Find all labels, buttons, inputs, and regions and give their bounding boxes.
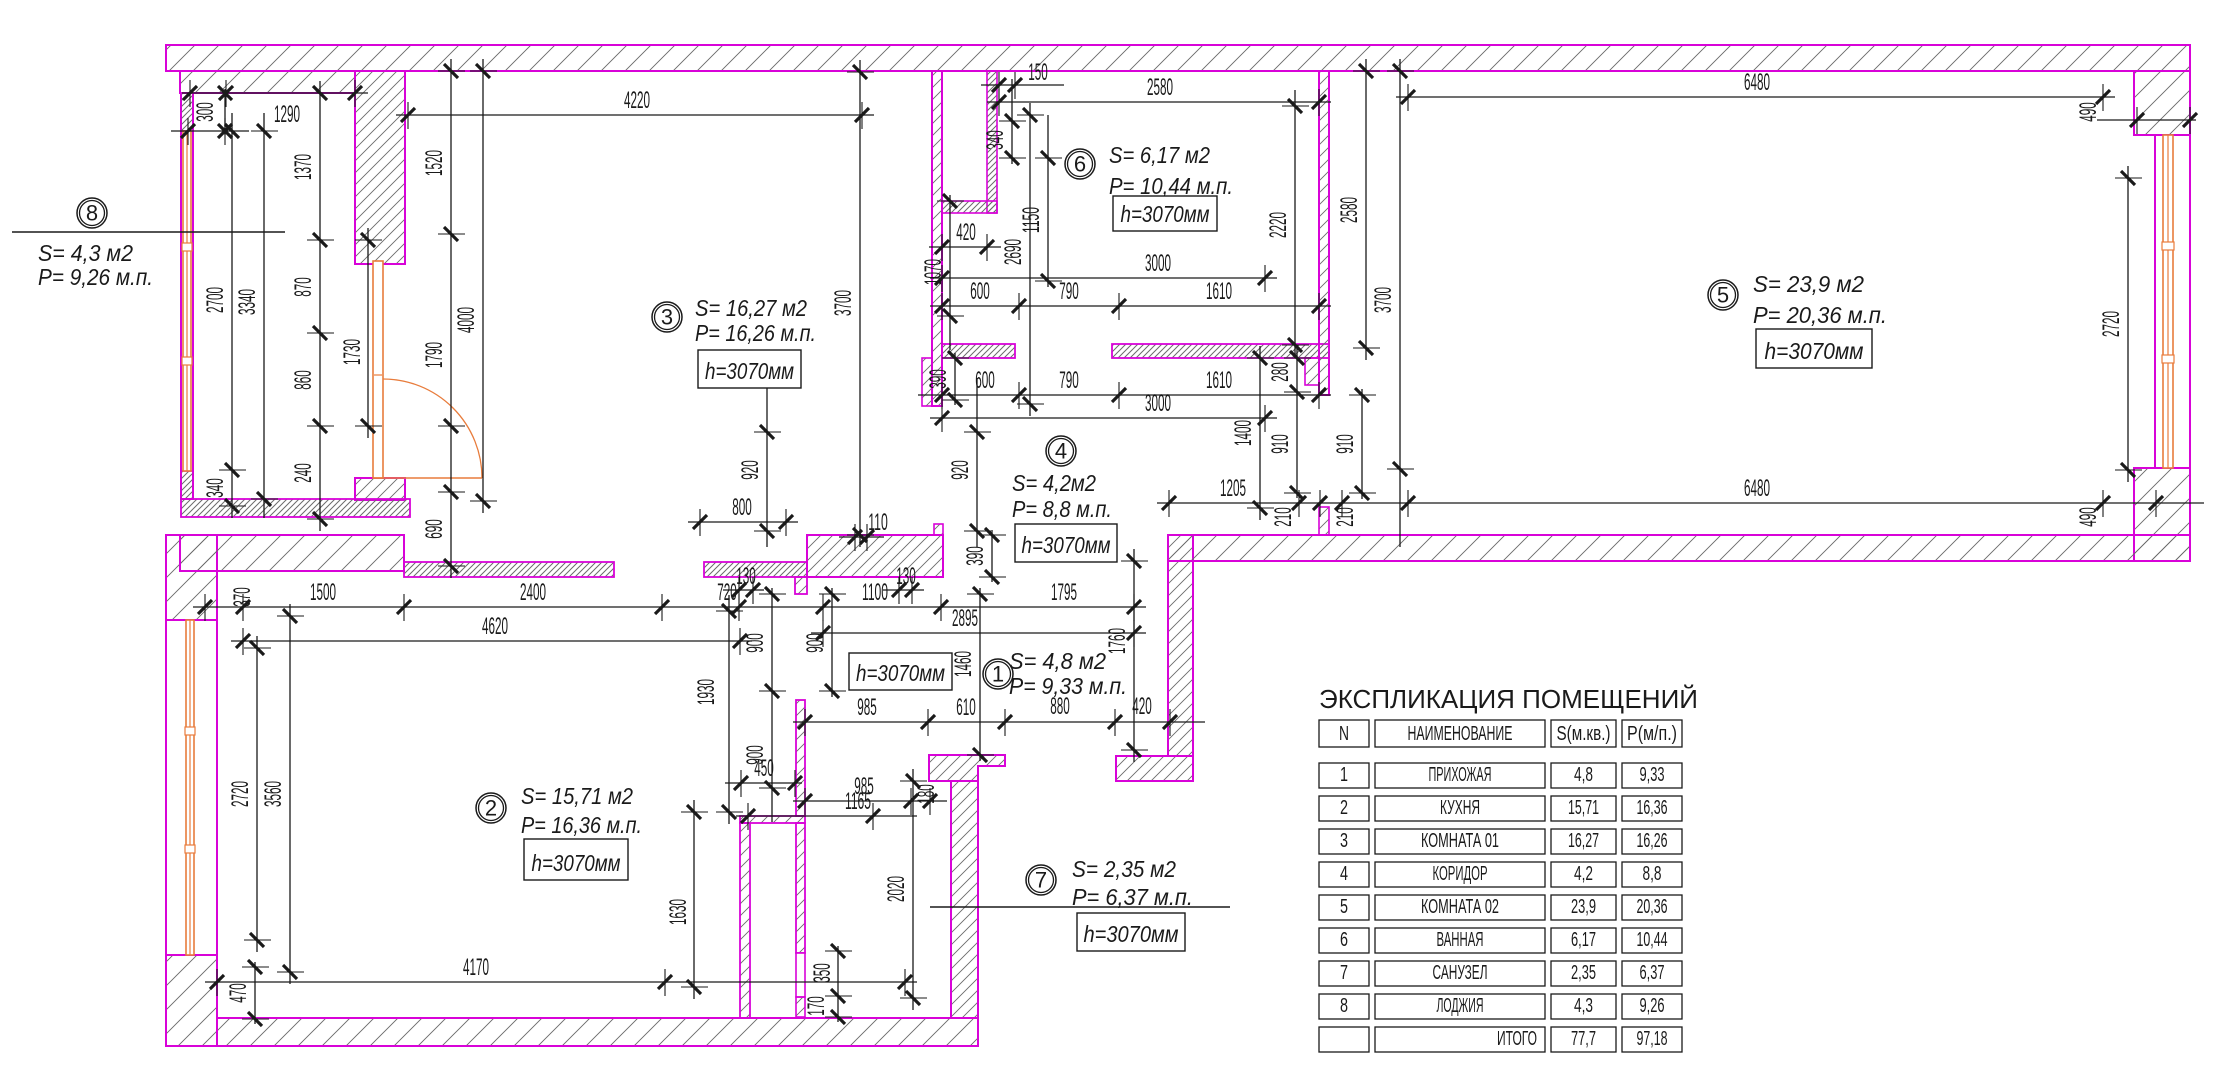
svg-text:P= 16,36 м.п.: P= 16,36 м.п. xyxy=(521,812,642,838)
svg-text:8: 8 xyxy=(1340,995,1348,1017)
svg-text:КОРИДОР: КОРИДОР xyxy=(1433,863,1488,885)
svg-text:6,17: 6,17 xyxy=(1571,929,1596,951)
svg-text:20,36: 20,36 xyxy=(1637,896,1668,918)
svg-text:985: 985 xyxy=(857,694,877,721)
svg-text:S= 4,8 м2: S= 4,8 м2 xyxy=(1009,648,1106,674)
svg-text:490: 490 xyxy=(2075,507,2102,527)
svg-text:S= 4,3 м2: S= 4,3 м2 xyxy=(38,240,133,266)
svg-text:23,9: 23,9 xyxy=(1571,896,1596,918)
svg-text:1460: 1460 xyxy=(950,651,977,677)
svg-text:6: 6 xyxy=(1074,152,1086,177)
svg-text:900: 900 xyxy=(742,745,769,765)
svg-text:2: 2 xyxy=(1340,797,1348,819)
svg-text:2400: 2400 xyxy=(520,579,546,606)
svg-text:210: 210 xyxy=(1332,507,1359,527)
svg-text:720: 720 xyxy=(717,579,737,606)
svg-text:ПРИХОЖАЯ: ПРИХОЖАЯ xyxy=(1429,764,1492,786)
svg-text:2020: 2020 xyxy=(883,876,910,902)
svg-text:16,36: 16,36 xyxy=(1637,797,1668,819)
svg-text:600: 600 xyxy=(970,278,990,305)
svg-text:НАИМЕНОВАНИЕ: НАИМЕНОВАНИЕ xyxy=(1408,723,1513,745)
svg-text:S(м.кв.): S(м.кв.) xyxy=(1557,723,1611,745)
svg-text:1630: 1630 xyxy=(665,899,692,925)
svg-text:4,8: 4,8 xyxy=(1574,764,1593,786)
svg-text:4000: 4000 xyxy=(453,307,480,333)
svg-text:600: 600 xyxy=(975,367,995,394)
svg-text:1: 1 xyxy=(1340,764,1348,786)
svg-text:2580: 2580 xyxy=(1147,74,1173,101)
svg-text:КУХНЯ: КУХНЯ xyxy=(1440,797,1480,819)
svg-text:4,3: 4,3 xyxy=(1574,995,1593,1017)
svg-text:210: 210 xyxy=(1270,507,1297,527)
svg-text:790: 790 xyxy=(1059,367,1079,394)
svg-text:1165: 1165 xyxy=(845,788,871,815)
svg-text:ИТОГО: ИТОГО xyxy=(1497,1028,1537,1050)
svg-text:1500: 1500 xyxy=(310,579,336,606)
svg-text:4170: 4170 xyxy=(463,954,489,981)
svg-text:S= 16,27 м2: S= 16,27 м2 xyxy=(695,295,807,321)
svg-text:77,7: 77,7 xyxy=(1571,1028,1596,1050)
svg-text:6: 6 xyxy=(1340,929,1348,951)
svg-text:3560: 3560 xyxy=(260,781,287,807)
svg-text:130: 130 xyxy=(736,563,756,590)
svg-text:97,18: 97,18 xyxy=(1637,1028,1668,1050)
svg-text:2220: 2220 xyxy=(1265,212,1292,238)
svg-text:1100: 1100 xyxy=(862,579,888,606)
svg-text:S= 15,71 м2: S= 15,71 м2 xyxy=(521,783,633,809)
svg-text:16,27: 16,27 xyxy=(1568,830,1599,852)
svg-text:16,26: 16,26 xyxy=(1637,830,1668,852)
svg-text:ЭКСПЛИКАЦИЯ ПОМЕЩЕНИЙ: ЭКСПЛИКАЦИЯ ПОМЕЩЕНИЙ xyxy=(1319,684,1698,714)
svg-text:1370: 1370 xyxy=(290,154,317,180)
svg-text:900: 900 xyxy=(742,633,769,653)
svg-text:1610: 1610 xyxy=(1206,367,1232,394)
svg-text:3340: 3340 xyxy=(234,289,261,315)
svg-text:110: 110 xyxy=(868,509,888,536)
svg-text:3700: 3700 xyxy=(830,290,857,316)
svg-text:1795: 1795 xyxy=(1051,579,1077,606)
svg-text:N: N xyxy=(1339,723,1349,745)
svg-text:900: 900 xyxy=(802,633,829,653)
svg-text:КОМНАТА 01: КОМНАТА 01 xyxy=(1421,830,1499,852)
svg-text:340: 340 xyxy=(202,478,229,498)
svg-text:1070: 1070 xyxy=(920,259,947,285)
svg-text:P= 8,8 м.п.: P= 8,8 м.п. xyxy=(1012,496,1112,522)
svg-text:6,37: 6,37 xyxy=(1640,962,1665,984)
svg-text:9,26: 9,26 xyxy=(1640,995,1665,1017)
svg-text:350: 350 xyxy=(809,963,836,983)
svg-text:610: 610 xyxy=(956,694,976,721)
svg-text:h=3070мм: h=3070мм xyxy=(705,358,794,384)
svg-text:ЛОДЖИЯ: ЛОДЖИЯ xyxy=(1437,995,1484,1017)
svg-text:690: 690 xyxy=(421,519,448,539)
svg-text:P= 9,26 м.п.: P= 9,26 м.п. xyxy=(38,264,153,290)
svg-text:6480: 6480 xyxy=(1744,69,1770,96)
svg-text:4620: 4620 xyxy=(482,613,508,640)
svg-text:1610: 1610 xyxy=(1206,278,1232,305)
svg-text:240: 240 xyxy=(290,463,317,483)
svg-text:10,44: 10,44 xyxy=(1637,929,1668,951)
svg-text:3: 3 xyxy=(1340,830,1348,852)
svg-text:790: 790 xyxy=(1059,278,1079,305)
svg-text:2690: 2690 xyxy=(1000,239,1027,265)
svg-text:800: 800 xyxy=(732,494,752,521)
svg-text:9,33: 9,33 xyxy=(1640,764,1665,786)
svg-text:910: 910 xyxy=(1332,434,1359,454)
svg-text:4,2: 4,2 xyxy=(1574,863,1593,885)
svg-text:P= 10,44 м.п.: P= 10,44 м.п. xyxy=(1109,173,1233,199)
svg-text:2580: 2580 xyxy=(1336,197,1363,223)
svg-text:1: 1 xyxy=(992,662,1004,687)
svg-text:4220: 4220 xyxy=(624,87,650,114)
svg-text:4: 4 xyxy=(1055,439,1067,464)
svg-text:490: 490 xyxy=(2075,102,2102,122)
svg-text:2700: 2700 xyxy=(202,287,229,313)
svg-text:P(м/п.): P(м/п.) xyxy=(1627,723,1677,745)
svg-text:2895: 2895 xyxy=(952,605,978,632)
svg-text:1760: 1760 xyxy=(1104,628,1131,654)
svg-text:280: 280 xyxy=(1267,362,1294,382)
svg-text:470: 470 xyxy=(225,983,252,1003)
svg-text:920: 920 xyxy=(737,460,764,480)
svg-text:S= 4,2м2: S= 4,2м2 xyxy=(1012,470,1096,496)
svg-text:390: 390 xyxy=(925,369,952,389)
svg-text:390: 390 xyxy=(962,546,989,566)
svg-text:1930: 1930 xyxy=(693,679,720,705)
svg-text:P= 9,33 м.п.: P= 9,33 м.п. xyxy=(1009,673,1127,699)
svg-text:1290: 1290 xyxy=(274,101,300,128)
svg-text:860: 860 xyxy=(290,370,317,390)
svg-text:420: 420 xyxy=(956,219,976,246)
svg-text:910: 910 xyxy=(1267,434,1294,454)
svg-text:130: 130 xyxy=(896,563,916,590)
svg-text:2720: 2720 xyxy=(227,781,254,807)
svg-text:ВАННАЯ: ВАННАЯ xyxy=(1437,929,1484,951)
svg-text:1790: 1790 xyxy=(421,342,448,368)
svg-text:4: 4 xyxy=(1340,863,1348,885)
svg-text:h=3070мм: h=3070мм xyxy=(1121,201,1210,227)
svg-text:15,71: 15,71 xyxy=(1568,797,1599,819)
svg-text:920: 920 xyxy=(947,460,974,480)
svg-text:P= 16,26 м.п.: P= 16,26 м.п. xyxy=(695,320,816,346)
svg-text:3: 3 xyxy=(661,305,673,330)
svg-text:420: 420 xyxy=(1132,693,1152,720)
svg-text:1520: 1520 xyxy=(421,150,448,176)
svg-text:h=3070мм: h=3070мм xyxy=(856,660,945,686)
svg-text:3000: 3000 xyxy=(1145,390,1171,417)
svg-text:8,8: 8,8 xyxy=(1643,863,1662,885)
svg-text:h=3070мм: h=3070мм xyxy=(1084,921,1179,947)
svg-text:340: 340 xyxy=(982,130,1009,150)
svg-text:h=3070мм: h=3070мм xyxy=(532,850,621,876)
svg-text:1400: 1400 xyxy=(1230,420,1257,446)
svg-text:1150: 1150 xyxy=(1018,207,1045,233)
svg-text:2,35: 2,35 xyxy=(1571,962,1596,984)
svg-text:870: 870 xyxy=(290,277,317,297)
svg-text:7: 7 xyxy=(1340,962,1348,984)
svg-text:S= 6,17 м2: S= 6,17 м2 xyxy=(1109,142,1210,168)
svg-text:h=3070мм: h=3070мм xyxy=(1022,532,1111,558)
svg-text:h=3070мм: h=3070мм xyxy=(1765,338,1864,364)
svg-text:2: 2 xyxy=(485,796,497,821)
svg-text:P= 6,37 м.п.: P= 6,37 м.п. xyxy=(1072,884,1193,910)
svg-text:P= 20,36 м.п.: P= 20,36 м.п. xyxy=(1753,302,1887,328)
svg-text:6480: 6480 xyxy=(1744,475,1770,502)
svg-text:КОМНАТА 02: КОМНАТА 02 xyxy=(1421,896,1499,918)
svg-text:3700: 3700 xyxy=(1370,287,1397,313)
svg-text:300: 300 xyxy=(192,102,219,122)
svg-text:370: 370 xyxy=(229,587,256,607)
svg-text:1730: 1730 xyxy=(339,339,366,365)
svg-text:2720: 2720 xyxy=(2098,311,2125,337)
svg-text:1205: 1205 xyxy=(1220,475,1246,502)
svg-text:3000: 3000 xyxy=(1145,250,1171,277)
svg-text:7: 7 xyxy=(1035,868,1047,893)
svg-text:S= 23,9 м2: S= 23,9 м2 xyxy=(1753,271,1864,297)
svg-text:САНУЗЕЛ: САНУЗЕЛ xyxy=(1433,962,1488,984)
svg-text:S= 2,35 м2: S= 2,35 м2 xyxy=(1072,856,1176,882)
svg-text:5: 5 xyxy=(1717,283,1729,308)
svg-text:5: 5 xyxy=(1340,896,1348,918)
svg-text:150: 150 xyxy=(1028,59,1048,86)
svg-text:8: 8 xyxy=(86,201,98,226)
svg-text:170: 170 xyxy=(803,996,830,1016)
